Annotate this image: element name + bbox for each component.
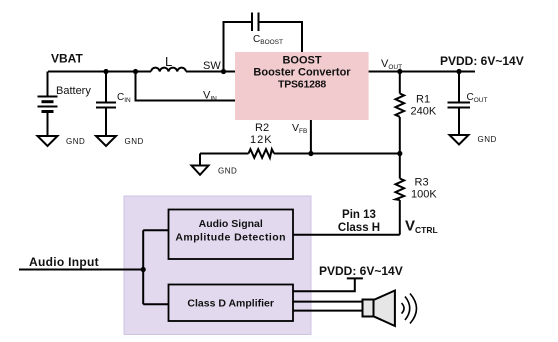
svg-text:TPS61288: TPS61288 bbox=[278, 79, 326, 91]
wire Cin stem top bbox=[105, 72, 107, 102]
speaker LS1 horn bbox=[374, 291, 395, 327]
svg-text:Audio Signal: Audio Signal bbox=[199, 218, 263, 230]
wire splitter top bbox=[143, 229, 168, 231]
svg-text:240K: 240K bbox=[411, 106, 437, 118]
speaker sound wave 2 bbox=[405, 297, 410, 321]
inductor L bbox=[151, 68, 186, 72]
node Cin junction bbox=[103, 69, 108, 74]
svg-text:BOOST: BOOST bbox=[282, 55, 321, 67]
svg-text:PVDD: 6V~14V: PVDD: 6V~14V bbox=[440, 54, 524, 68]
wire Cboost branch left bbox=[224, 22, 253, 72]
speaker sound wave 3 bbox=[410, 294, 417, 324]
svg-text:VOUT: VOUT bbox=[381, 58, 402, 71]
block audio signal amplitude detection bbox=[169, 210, 294, 260]
node SW junction bbox=[221, 69, 226, 74]
wire feedback rail bbox=[200, 153, 400, 155]
svg-text:VFB: VFB bbox=[292, 122, 307, 135]
svg-text:Class D Amplifier: Class D Amplifier bbox=[187, 298, 274, 310]
svg-text:COUT: COUT bbox=[467, 92, 488, 104]
svg-text:PVDD: 6V~14V: PVDD: 6V~14V bbox=[319, 264, 403, 278]
svg-text:Pin 13: Pin 13 bbox=[342, 209, 376, 221]
svg-text:R3: R3 bbox=[415, 177, 429, 189]
wire Vfb stem bbox=[310, 120, 312, 154]
wire PVDD T bar bbox=[347, 277, 363, 279]
svg-text:R1: R1 bbox=[416, 94, 430, 106]
svg-text:R2: R2 bbox=[255, 122, 269, 134]
wire Cout stem top bbox=[458, 72, 460, 102]
svg-text:VBAT: VBAT bbox=[51, 52, 83, 66]
wire Cout stem bottom bbox=[458, 109, 460, 136]
svg-text:GND: GND bbox=[478, 135, 497, 144]
wire R3 bottom stem bbox=[399, 200, 401, 235]
wire audio input bbox=[19, 269, 143, 271]
svg-text:SW: SW bbox=[203, 60, 221, 72]
battery B1 bbox=[38, 97, 58, 112]
node Vfb junction bbox=[308, 151, 313, 156]
node Cout junction bbox=[456, 69, 461, 74]
wire SW segment bbox=[186, 71, 235, 73]
block class D amplifier bbox=[169, 285, 294, 322]
op-amp U1 BOOST converter box bbox=[235, 52, 369, 120]
ground GND R2 bbox=[192, 166, 209, 175]
wire speaker line 1 bbox=[293, 301, 363, 303]
svg-text:GND: GND bbox=[66, 137, 85, 146]
svg-text:Audio Input: Audio Input bbox=[29, 255, 99, 269]
svg-text:Battery: Battery bbox=[56, 85, 91, 97]
wire splitter vertical bbox=[142, 230, 144, 304]
wire Cboost branch right bbox=[259, 22, 303, 52]
capacitor CBOOST bbox=[252, 13, 259, 32]
svg-text:VCTRL: VCTRL bbox=[405, 218, 438, 236]
node Vout junction bbox=[397, 69, 402, 74]
svg-text:CIN: CIN bbox=[117, 92, 131, 104]
purple amplifier block bbox=[124, 196, 311, 335]
ground GND battery bbox=[38, 136, 58, 146]
speaker sound wave 1 bbox=[402, 303, 405, 314]
wire R1 top stem bbox=[399, 72, 401, 94]
svg-text:100K: 100K bbox=[411, 189, 437, 201]
wire Vout rail bbox=[369, 71, 476, 73]
svg-text:L: L bbox=[165, 54, 172, 69]
svg-text:VIN: VIN bbox=[203, 90, 217, 103]
wire Vctrl to detector bbox=[293, 234, 400, 236]
svg-text:GND: GND bbox=[125, 137, 144, 146]
svg-text:CBOOST: CBOOST bbox=[253, 34, 283, 46]
wire battery stem bottom bbox=[47, 112, 49, 136]
node Vin junction bbox=[133, 69, 138, 74]
capacitor CIN bbox=[96, 103, 116, 108]
wire Cin stem bottom bbox=[105, 109, 107, 137]
svg-text:Class H: Class H bbox=[338, 222, 380, 234]
wire Vin branch bbox=[136, 72, 236, 101]
node R3 top junction bbox=[397, 151, 402, 156]
node audio input junction bbox=[141, 267, 146, 272]
svg-text:GND: GND bbox=[218, 167, 237, 176]
ground GND Cout bbox=[450, 135, 469, 145]
wire VBAT rail bbox=[48, 71, 151, 73]
wire R3 top stem bbox=[399, 154, 401, 179]
svg-text:Amplitude Detection: Amplitude Detection bbox=[175, 232, 286, 244]
wire speaker line 2 bbox=[293, 310, 363, 312]
wire PVDD power to class D bbox=[293, 278, 355, 291]
capacitor COUT bbox=[448, 103, 471, 108]
ground GND Cin bbox=[96, 136, 116, 146]
svg-text:12K: 12K bbox=[250, 134, 273, 146]
resistor R3 bbox=[396, 179, 405, 201]
wire battery stem top bbox=[47, 72, 49, 96]
wire splitter bottom bbox=[143, 303, 168, 305]
wire R1 bottom stem bbox=[399, 117, 401, 154]
wire R2 gnd stem bbox=[199, 154, 201, 166]
resistor R2 bbox=[249, 149, 275, 158]
resistor R1 bbox=[396, 94, 405, 117]
svg-text:Booster Convertor: Booster Convertor bbox=[253, 67, 351, 79]
speaker LS1 driver bbox=[363, 300, 374, 317]
